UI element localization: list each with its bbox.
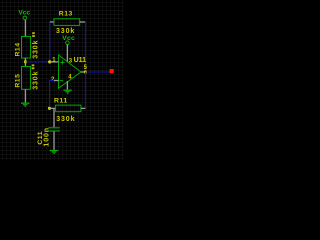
node A junction — [24, 60, 27, 63]
power symbol Vcc (top left) — [18, 9, 30, 36]
pin 5 (output) of U11 — [81, 71, 85, 73]
pin 1 of R11 — [50, 107, 56, 109]
node D junction — [48, 107, 51, 110]
svg-text:Vcc: Vcc — [18, 9, 30, 16]
svg-text:330k: 330k — [56, 116, 75, 123]
pin number 1 of R15 — [32, 64, 35, 66]
pin 4 (V-) of U11 — [66, 81, 68, 90]
svg-text:330k: 330k — [32, 40, 39, 59]
pin number 1 of R14 — [32, 32, 35, 34]
op-amp U11 — [50, 45, 87, 90]
pin 2 (inverting input) of U11 — [54, 80, 59, 82]
wire node A to node B — [26, 61, 50, 63]
pin 2 of R15 — [24, 89, 26, 102]
plus mark — [60, 60, 64, 64]
svg-text:R15: R15 — [14, 74, 21, 88]
ground under C11 — [50, 151, 58, 154]
pin 3 (V+) of U11 — [66, 45, 68, 63]
svg-text:U11: U11 — [74, 57, 87, 64]
wire output node C down to R11 pin 2 — [81, 72, 85, 108]
pin 1 of R13 — [50, 21, 55, 23]
pin 2 of R14 — [24, 58, 26, 62]
pin 1 of C11 — [53, 109, 55, 127]
minus mark — [60, 80, 64, 82]
wire R13 pin 2 down to output node C — [84, 22, 86, 72]
pin 1 (non-inverting input) of U11 — [50, 61, 58, 63]
resistor R14 — [14, 32, 39, 62]
power symbol Vcc (above op-amp) — [62, 35, 75, 45]
svg-text:R11: R11 — [54, 97, 68, 104]
wire R13 pin 1 down to node B — [49, 22, 51, 62]
capacitor C11 — [37, 109, 60, 150]
svg-text:330k: 330k — [32, 71, 39, 90]
resistor R11 — [50, 97, 86, 123]
node C junction (op-amp output) — [84, 70, 87, 73]
pin 2 of C11 — [53, 132, 55, 150]
dangling net endpoint marker — [110, 69, 114, 73]
svg-text:R14: R14 — [14, 43, 21, 57]
pin 2 of R11 — [81, 107, 86, 109]
svg-text:Vcc: Vcc — [62, 35, 75, 42]
capacitor plate bottom — [48, 130, 60, 132]
pin 1 of R15 — [24, 62, 26, 67]
op-amp triangle body — [59, 55, 82, 88]
svg-text:R13: R13 — [59, 11, 73, 18]
pin 2 of R13 — [80, 21, 86, 23]
ground under op-amp pin 4 — [63, 90, 71, 93]
wire output node C to dangling end — [85, 71, 110, 73]
svg-text:100n: 100n — [44, 127, 51, 147]
ground under R15 — [21, 103, 29, 106]
wire op-amp pin 2 to node D — [50, 81, 55, 109]
resistor R13 — [50, 11, 86, 35]
resistor R15 — [14, 62, 39, 103]
node B junction — [48, 60, 51, 63]
capacitor plate top — [48, 127, 60, 129]
